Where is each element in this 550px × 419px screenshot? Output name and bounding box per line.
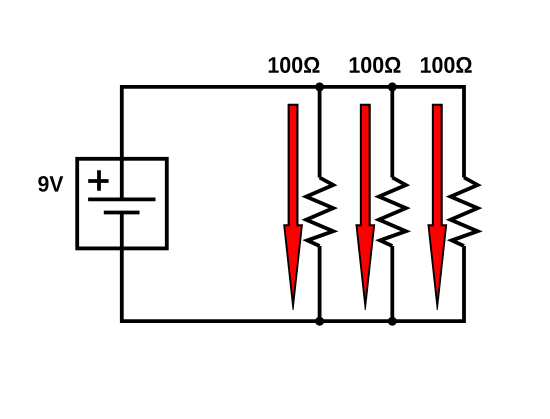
label 100 ohm for R2 xyxy=(350,57,401,73)
current arrow I2 red fill xyxy=(358,106,374,298)
label 100 ohm for R1 xyxy=(269,57,320,73)
junction dot: top node at R2 xyxy=(388,82,397,91)
wire: left + top + right upper run (battery + terminal to resistor R3 top) xyxy=(122,87,464,199)
current arrow I1 red fill xyxy=(285,106,301,298)
battery plus sign xyxy=(88,170,108,190)
resistor R3 zigzag xyxy=(451,178,478,247)
wire: left lower + bottom + right lower run (battery - terminal to resistor R3 bottom) xyxy=(122,213,464,322)
wire: resistor R2 branch upper lead xyxy=(390,87,394,178)
wire: resistor R1 branch upper lead xyxy=(318,87,322,178)
battery long plate (+) xyxy=(88,198,155,202)
current arrow I2 outline xyxy=(355,104,375,310)
battery V1 box xyxy=(77,159,167,249)
resistor R2 zigzag xyxy=(379,178,406,247)
current arrow I3 red fill xyxy=(430,106,446,298)
wire: resistor R1 branch lower lead xyxy=(318,246,322,321)
resistor R1 zigzag xyxy=(306,178,333,247)
current arrow I3 outline xyxy=(427,104,447,310)
label 100 ohm for R3 xyxy=(421,57,472,73)
wire: resistor R2 branch lower lead xyxy=(390,246,394,321)
junction dot: bottom node at R1 xyxy=(315,317,324,326)
label 9V xyxy=(38,176,63,192)
battery short plate (-) xyxy=(104,211,140,215)
junction dot: bottom node at R2 xyxy=(388,317,397,326)
junction dot: top node at R1 xyxy=(315,82,324,91)
current arrow I1 outline xyxy=(283,104,303,310)
